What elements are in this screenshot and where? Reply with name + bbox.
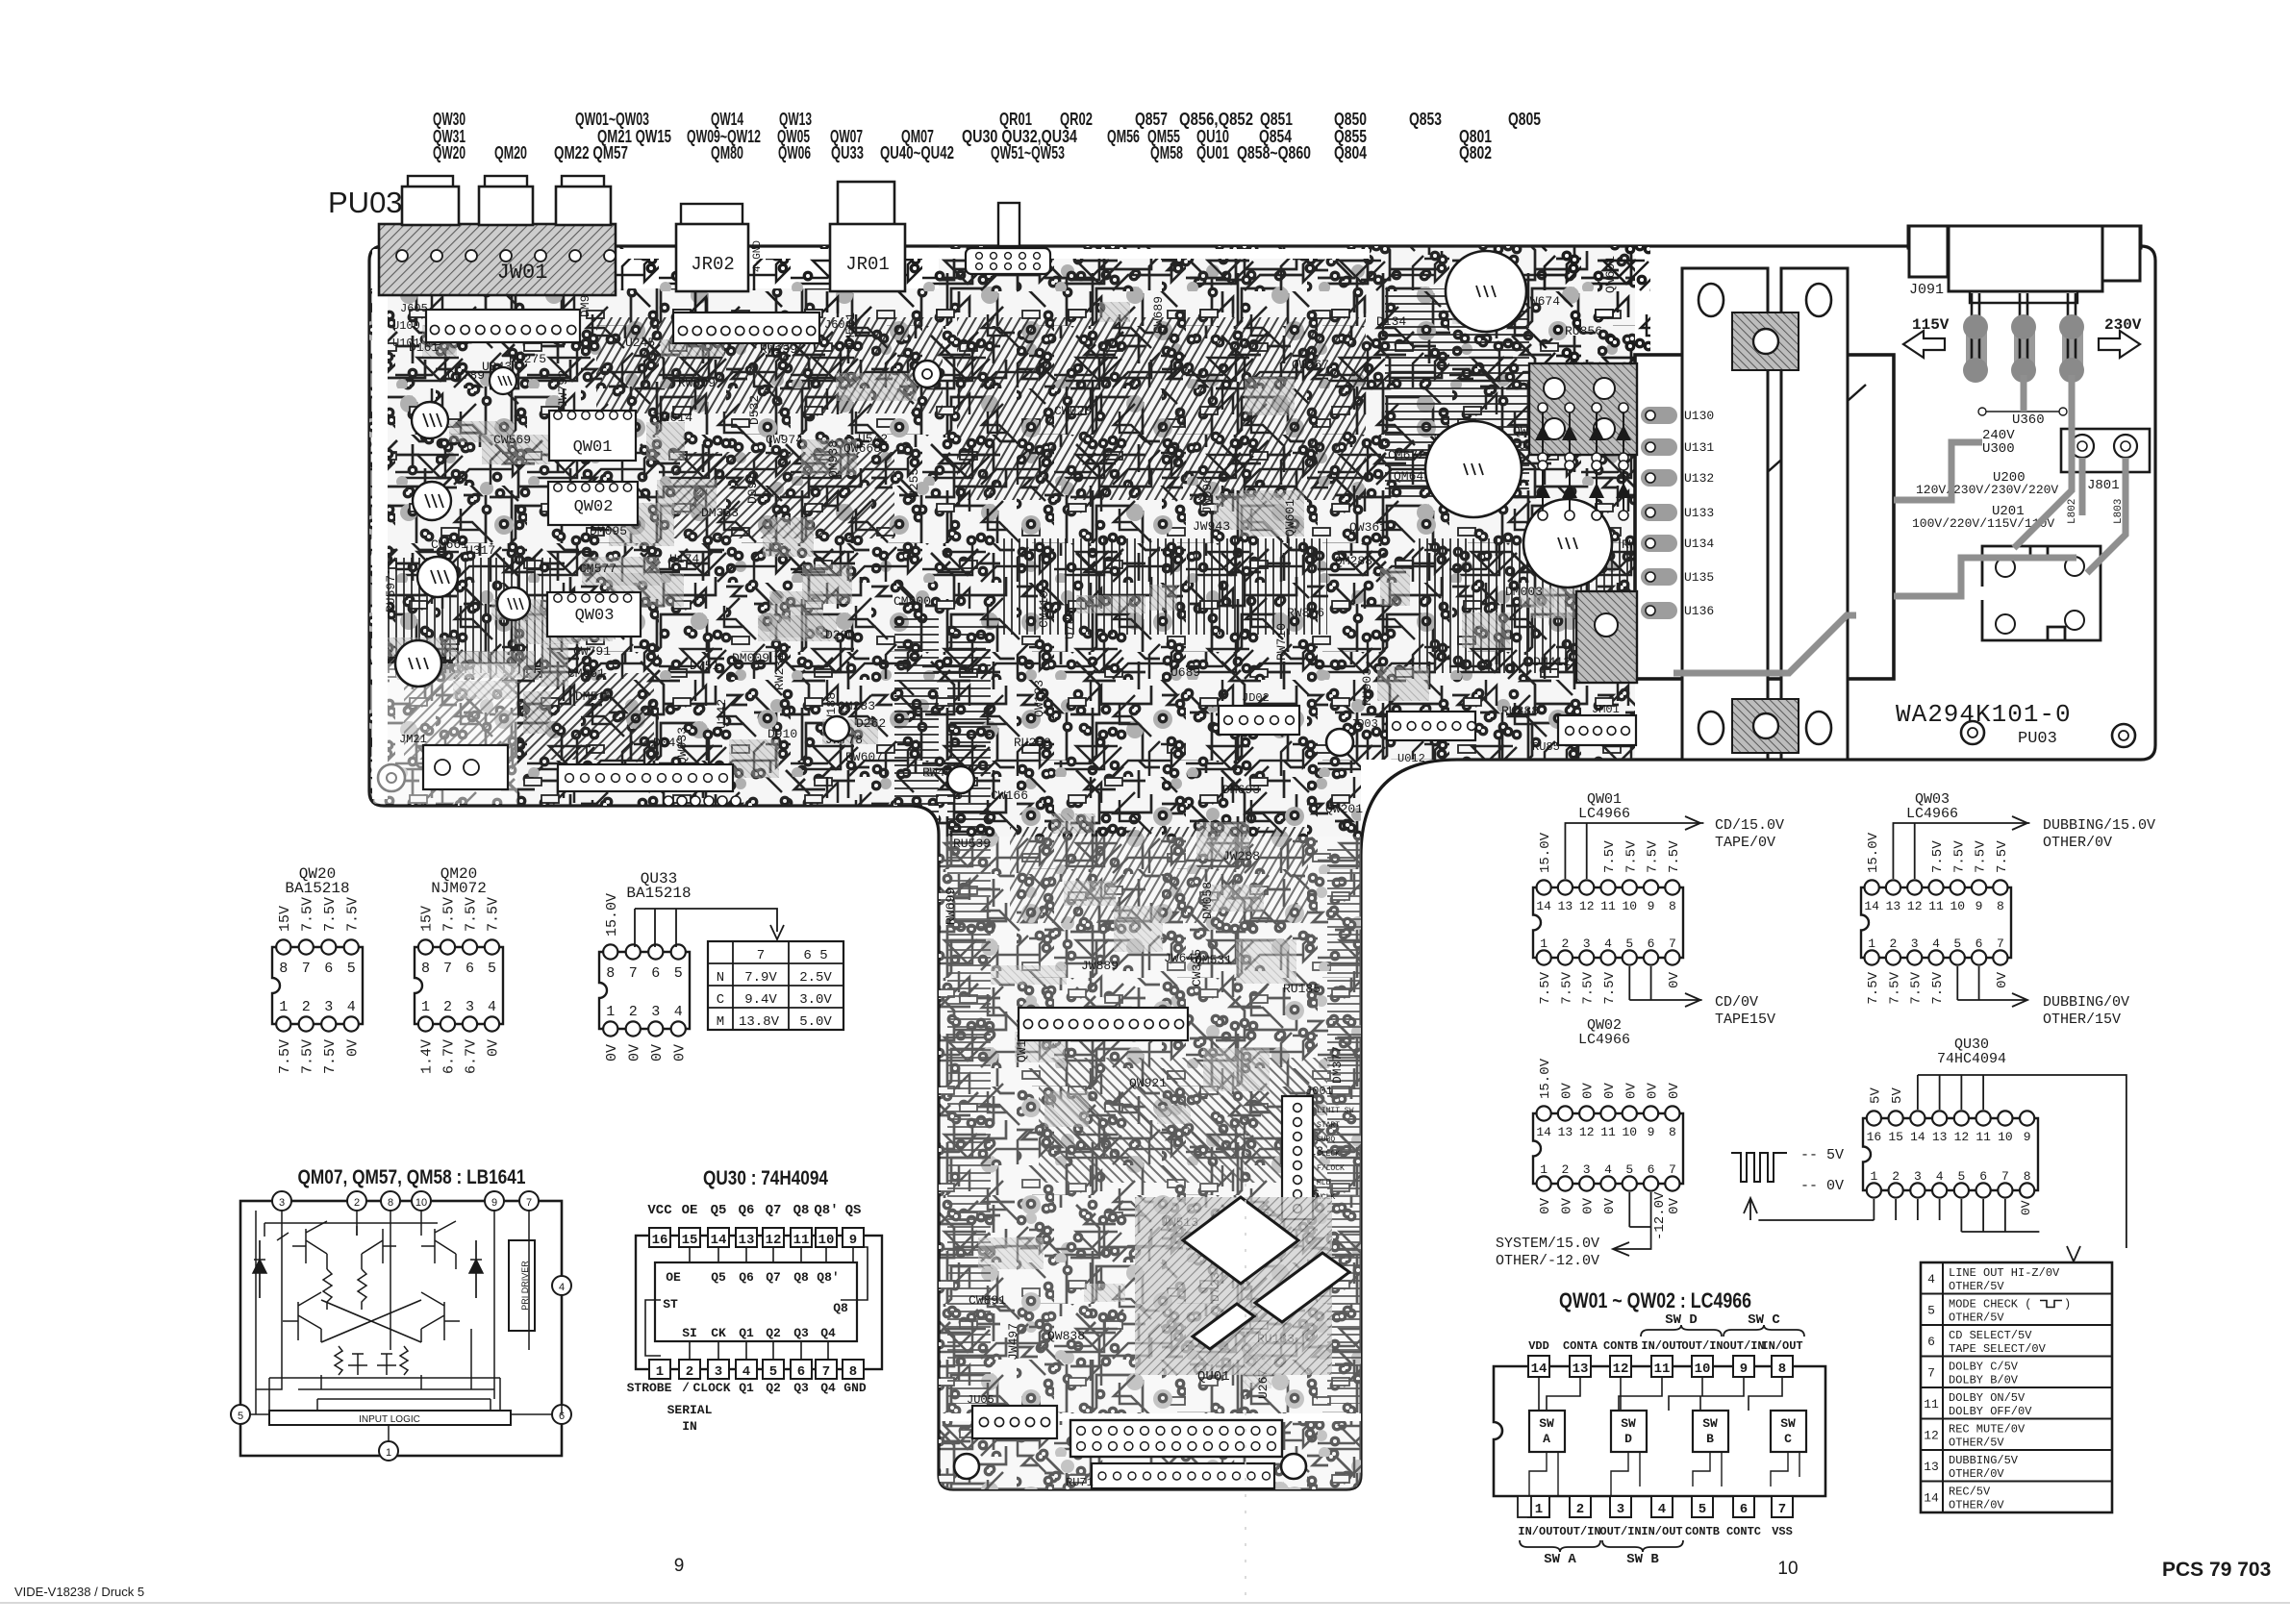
heatsink bracket [1682,268,1768,760]
svg-text:7.5V: 7.5V [1646,840,1661,873]
svg-text:10: 10 [1622,899,1637,913]
svg-text:CW395: CW395 [1190,949,1204,987]
svg-text:SUBQ: SUBQ [1317,1136,1335,1144]
svg-text:Q1: Q1 [739,1381,754,1395]
connector JM21 [423,745,508,789]
pin 16 [649,1228,670,1247]
svg-text:BA15218: BA15218 [285,880,349,897]
svg-text:LIMIT SW: LIMIT SW [1317,1107,1354,1115]
svg-text:1: 1 [606,1004,615,1020]
svg-text:QW838: QW838 [1047,1329,1085,1343]
svg-text:QM283: QM283 [838,699,875,713]
svg-text:0V: 0V [1602,1197,1618,1213]
svg-text:5: 5 [488,961,496,977]
wire QU30 outputs to table [1918,1075,1983,1110]
svg-text:OTHER/5V: OTHER/5V [1949,1437,2004,1450]
svg-text:RU85: RU85 [1532,740,1560,754]
svg-text:7.5V: 7.5V [1930,840,1946,873]
svg-text:11: 11 [1928,899,1944,913]
svg-text:U134: U134 [1684,537,1714,551]
svg-text:CM577: CM577 [579,562,617,576]
svg-text:Q4: Q4 [820,1381,836,1395]
svg-text:9: 9 [491,1197,497,1209]
svg-text:DM009: DM009 [732,651,769,665]
svg-text:0V: 0V [1646,1083,1661,1099]
svg-text:15: 15 [1888,1130,1903,1144]
svg-text:15V: 15V [277,906,293,932]
svg-text:7.5V: 7.5V [322,897,339,932]
svg-text:6 5: 6 5 [803,948,827,963]
svg-text:JD02: JD02 [1242,691,1270,705]
svg-text:14: 14 [1531,1362,1548,1377]
pin 11 [1651,1356,1673,1377]
diode D8xx [1542,408,1544,458]
svg-text:DM058: DM058 [1200,882,1215,919]
wire SYSTEM/15.0V [1614,1192,1651,1249]
svg-text:CM661: CM661 [567,666,605,681]
svg-text:U174: U174 [669,552,699,566]
svg-text:4: 4 [347,999,356,1015]
svg-text:12: 12 [1924,1429,1939,1443]
svg-text:1: 1 [1540,937,1548,951]
svg-text:15.0V: 15.0V [604,893,620,937]
svg-text:3: 3 [1583,1162,1591,1177]
INPUT LOGIC block [269,1411,511,1425]
IC QW03 [547,592,641,637]
screw hole [1281,1454,1306,1479]
svg-text:WA294K101-0: WA294K101-0 [1896,700,2072,729]
scan edge line [0,1602,2290,1604]
svg-text:Q6: Q6 [739,1270,754,1285]
svg-text:JU05: JU05 [967,1393,994,1407]
svg-text:Q8': Q8' [817,1270,839,1285]
pin 5 [1692,1496,1713,1517]
IC QW20 BA15218 pinout [272,947,363,1024]
svg-text:U136: U136 [1684,604,1714,618]
svg-text:RW139: RW139 [760,342,797,357]
switch SW D [1611,1411,1647,1452]
screw hole [914,361,941,387]
svg-text:2: 2 [302,999,311,1015]
IC QU10 [1529,363,1637,455]
connector J604 [673,312,819,343]
screw hole [954,1454,979,1479]
brace SW A [1520,1540,1600,1552]
svg-text:7.5V: 7.5V [1887,971,1902,1004]
table pin functions [1921,1262,2112,1512]
svg-text:QW601: QW601 [1603,256,1618,293]
svg-text:Q6: Q6 [739,1203,755,1218]
diode D8xx [1569,465,1571,515]
connector J605 [426,310,580,342]
corner light patch [373,663,517,804]
svg-text:5: 5 [238,1411,243,1422]
svg-text:2: 2 [1576,1502,1584,1517]
svg-text:3: 3 [279,1197,285,1209]
svg-text:7: 7 [2001,1169,2009,1184]
PRI DRIVER block [509,1240,535,1331]
svg-text:7.5V: 7.5V [299,897,315,932]
svg-text:QM56: QM56 [1107,127,1140,146]
connector J091 [1908,226,2141,248]
svg-text:9: 9 [1648,1125,1655,1139]
pin [2062,317,2083,377]
svg-text:Q2: Q2 [766,1326,781,1340]
svg-text:6.7V: 6.7V [464,1039,480,1074]
svg-text:7.5V: 7.5V [1930,971,1946,1004]
svg-text:CW661: CW661 [431,537,468,552]
svg-text:CW569: CW569 [493,433,531,447]
svg-text:9: 9 [849,1233,857,1248]
svg-text:JM01: JM01 [1592,703,1620,716]
svg-text:RU539: RU539 [953,837,991,851]
svg-text:0V: 0V [671,1044,688,1062]
wire [369,246,1659,1489]
svg-text:13: 13 [1932,1130,1948,1144]
svg-text:RU275: RU275 [509,352,546,366]
svg-text:U012: U012 [1397,752,1425,765]
IC QM20 NJM072 pinout [415,947,503,1024]
svg-text:JR02: JR02 [691,254,735,275]
wire CD/0V [1629,966,1701,1000]
svg-text:Q7: Q7 [766,1270,781,1285]
svg-text:MODE CHECK (: MODE CHECK ( [1949,1298,2031,1312]
svg-text:2: 2 [354,1197,360,1209]
svg-text:9: 9 [1975,899,1983,913]
svg-text:QW51~QW53: QW51~QW53 [991,143,1065,162]
svg-text:5: 5 [347,961,356,977]
diode [475,1240,477,1298]
svg-text:1: 1 [1870,1169,1877,1184]
svg-text:4: 4 [742,1364,750,1380]
svg-text:2.5V: 2.5V [799,970,832,986]
screw hole [947,766,974,793]
svg-text:U360: U360 [2012,412,2045,428]
capacitor C805 [1446,251,1526,332]
diode D8xx [1623,465,1624,515]
svg-text:7.5V: 7.5V [1559,971,1574,1004]
svg-text:7.5V: 7.5V [441,897,458,932]
svg-text:0V: 0V [1581,1083,1597,1099]
pin [2014,317,2035,377]
copper pour [491,599,551,620]
svg-text:U255: U255 [907,468,921,498]
svg-text:OTHER/0V: OTHER/0V [1949,1499,2004,1512]
wire bundle [380,558,553,673]
svg-text:VSS: VSS [1772,1525,1793,1538]
pin 6 [791,1360,812,1379]
svg-text:3: 3 [1617,1502,1624,1517]
svg-text:5V: 5V [1890,1087,1905,1104]
svg-text:VIDE-V18238 / Druck 5: VIDE-V18238 / Druck 5 [14,1585,144,1599]
table QU33 voltages [708,941,843,1030]
svg-text:10: 10 [1695,1362,1711,1377]
IC QW01 [549,411,636,461]
pad U130 [1641,407,1677,424]
svg-text:Q8': Q8' [814,1203,838,1218]
connector JD03 [1387,712,1475,740]
svg-text:D532: D532 [747,395,762,425]
svg-text:Q5: Q5 [711,1270,726,1285]
wire [1894,442,1982,500]
svg-text:U245: U245 [625,336,655,350]
heatsink bracket [1781,268,1848,760]
svg-text:12: 12 [1907,899,1923,913]
svg-text:15.0V: 15.0V [1538,1058,1553,1099]
connector RU71 row [1092,1463,1274,1488]
svg-text:4-GND: 4-GND [752,240,764,272]
svg-text:7: 7 [1669,937,1676,951]
IC QW02 [548,482,638,525]
pad U133 [1641,504,1677,521]
svg-text:IN/OUT: IN/OUT [1518,1525,1559,1538]
pin 2 [1570,1496,1591,1517]
svg-text:12: 12 [1579,1125,1595,1139]
svg-text:U142: U142 [715,699,729,729]
diode D8xx [1542,465,1544,515]
svg-text:3: 3 [1914,1169,1922,1184]
svg-text:SW B: SW B [1626,1552,1659,1567]
connector JM01 [1558,715,1636,745]
heatsink clamp top [1732,312,1799,370]
svg-text:15: 15 [682,1233,698,1248]
svg-text:6: 6 [1648,937,1655,951]
pin 3 [1610,1496,1631,1517]
svg-text:0V: 0V [1667,1197,1682,1213]
svg-text:3: 3 [1583,937,1591,951]
svg-text:QM22 QM57: QM22 QM57 [554,143,628,162]
pin 9 [1733,1356,1754,1377]
svg-text:7.5V: 7.5V [1581,971,1597,1004]
IC QW01 LC4966 pinout [1533,887,1683,958]
svg-text:0V: 0V [1602,1083,1618,1099]
board edge notch pins [664,796,673,806]
svg-text:OE: OE [682,1203,698,1218]
svg-text:7.5V: 7.5V [277,1039,293,1074]
svg-text:7: 7 [629,965,638,982]
svg-text:6: 6 [1648,1162,1655,1177]
svg-text:7.5V: 7.5V [1602,971,1618,1004]
svg-text:5V: 5V [1868,1087,1883,1104]
svg-text:6: 6 [1979,1169,1987,1184]
brace SW D [1641,1325,1722,1337]
svg-text:11: 11 [793,1233,810,1248]
pin 14 [708,1228,729,1247]
svg-text:SW D: SW D [1665,1312,1698,1328]
svg-text:CONTA: CONTA [1563,1339,1598,1353]
pin 14 [1528,1356,1549,1377]
svg-text:8: 8 [279,961,288,977]
svg-text:4: 4 [1604,937,1612,951]
wire QU33 to table [635,909,777,947]
svg-text:2: 2 [1562,1162,1570,1177]
svg-text:12: 12 [1954,1130,1970,1144]
svg-text:JW889: JW889 [1081,959,1119,973]
svg-text:4: 4 [488,999,496,1015]
svg-text:QM288: QM288 [1335,554,1372,568]
svg-text:7.5V: 7.5V [1866,971,1881,1004]
pin 10 [816,1228,837,1247]
pin 6 [1733,1496,1754,1517]
svg-text:6.7V: 6.7V [441,1039,458,1074]
svg-text:11: 11 [1924,1397,1939,1412]
svg-text:DM412: DM412 [1533,655,1571,669]
svg-text:3: 3 [651,1004,660,1020]
screw hole [378,764,405,791]
diode D8xx [1596,408,1598,458]
switch SW A [1529,1411,1565,1452]
svg-text:SW: SW [1621,1416,1636,1431]
svg-text:3: 3 [1911,937,1919,951]
svg-text:U131: U131 [1684,440,1714,455]
pad U135 [1641,568,1677,586]
svg-text:JW497: JW497 [1006,1323,1020,1361]
svg-text:DOLBY ON/5V: DOLBY ON/5V [1949,1391,2026,1405]
svg-text:OTHER/0V: OTHER/0V [2043,835,2112,851]
svg-text:QM20: QM20 [494,143,527,162]
svg-text:3: 3 [466,999,474,1015]
svg-text:LC4966: LC4966 [1906,806,1958,822]
connector SR01 [966,248,1050,274]
pin 3 [708,1360,729,1379]
capacitor C806 [1425,421,1522,517]
svg-text:BA15218: BA15218 [626,885,691,902]
svg-text:RU185: RU185 [1283,982,1321,996]
svg-text:13: 13 [1886,899,1901,913]
svg-text:14: 14 [1536,1125,1551,1139]
capacitor C809 [1523,499,1612,587]
connector jack RCA 1 [408,176,453,187]
svg-text:QW14: QW14 [711,110,743,129]
svg-text:1: 1 [1868,937,1875,951]
svg-text:Q850: Q850 [1334,110,1367,129]
svg-text:): ) [2064,1298,2071,1312]
svg-text:5: 5 [1625,1162,1633,1177]
svg-text:REC MUTE/0V: REC MUTE/0V [1949,1423,2026,1437]
svg-text:U101: U101 [392,337,420,350]
svg-text:2: 2 [443,999,452,1015]
op-amp U_LB1641 internal diagram [240,1201,562,1456]
svg-text:0V: 0V [1559,1083,1574,1099]
svg-text:RU597: RU597 [384,575,398,612]
svg-text:TAPE SELECT/0V: TAPE SELECT/0V [1949,1342,2047,1356]
transistor QW20 can [412,402,448,438]
svg-text:-- 0V: -- 0V [1800,1178,1844,1194]
connector J801 [2061,429,2150,472]
svg-text:QM58: QM58 [1150,143,1183,162]
pad U131 [1641,438,1677,456]
svg-text:CW974: CW974 [766,433,803,447]
wire [256,1211,562,1414]
pin 12 [1610,1356,1631,1377]
svg-text:6: 6 [1927,1335,1935,1349]
svg-text:0V: 0V [1559,1197,1574,1213]
svg-text:OTHER/15V: OTHER/15V [2043,1012,2121,1028]
IC QU33 BA15218 pinout [599,952,690,1029]
svg-text:A: A [1543,1432,1550,1446]
pin [1966,317,1987,377]
svg-text:13: 13 [1573,1362,1589,1377]
svg-text:QM07, QM57, QM58 : LB1641: QM07, QM57, QM58 : LB1641 [298,1166,526,1188]
IC QW02 LC4966 pinout [1533,1113,1683,1184]
svg-text:QM938: QM938 [826,440,841,478]
svg-text:CW791: CW791 [573,644,611,659]
connector jack RCA 2 [485,176,527,187]
svg-text:Q804: Q804 [1334,143,1367,162]
diode [259,1240,261,1298]
svg-text:7.5V: 7.5V [1974,840,1989,873]
svg-text:CM900: CM900 [893,594,931,609]
transistor QW30 can [413,482,451,520]
svg-text:QW30: QW30 [433,110,466,129]
pin 4 [736,1360,757,1379]
diode D8xx [1623,408,1624,458]
svg-text:JD03: JD03 [1350,717,1378,731]
svg-text:QW20: QW20 [433,143,466,162]
svg-text:11: 11 [1600,1125,1616,1139]
svg-text:-- 5V: -- 5V [1800,1147,1844,1163]
svg-text:10: 10 [1998,1130,2013,1144]
svg-text:J605: J605 [400,302,428,315]
svg-text:9: 9 [2024,1130,2031,1144]
svg-text:Q2: Q2 [766,1381,781,1395]
svg-text:SW: SW [1539,1416,1554,1431]
svg-text:Q851: Q851 [1260,110,1293,129]
svg-text:QW668: QW668 [843,441,881,456]
svg-text:Q858~Q860: Q858~Q860 [1237,143,1311,162]
pin 2 [347,1191,366,1211]
svg-text:U780: U780 [1063,610,1077,639]
svg-text:QW361: QW361 [1349,520,1387,535]
svg-text:D910: D910 [768,727,797,741]
svg-text:Q805: Q805 [1508,110,1541,129]
transistor QM20 can [417,557,458,597]
switch SW C [1771,1411,1806,1452]
svg-text:7: 7 [1997,937,2004,951]
svg-text:OE: OE [666,1270,681,1285]
svg-text:1: 1 [1540,1162,1548,1177]
svg-text:14: 14 [711,1233,727,1248]
svg-text:9.4V: 9.4V [744,992,777,1008]
svg-text:SI: SI [682,1326,697,1340]
svg-text:RW809: RW809 [678,376,716,390]
switch SW B [1693,1411,1728,1452]
svg-text:16: 16 [652,1233,668,1248]
svg-text:J801: J801 [2087,478,2120,493]
JW01 pins [396,250,408,262]
svg-text:Q3: Q3 [793,1381,809,1395]
wire DUBBING/0V [1957,966,2027,1000]
svg-text:6: 6 [797,1364,805,1380]
svg-text:C: C [1784,1432,1792,1446]
svg-text:CD/15.0V: CD/15.0V [1715,817,1784,834]
transistor CW20 can [497,587,530,620]
svg-text:Q853: Q853 [1409,110,1442,129]
svg-text:0V: 0V [604,1044,620,1062]
svg-text:QU40~QU42: QU40~QU42 [880,143,954,162]
pin 1 [649,1360,670,1379]
svg-text:1: 1 [279,999,288,1015]
svg-text:QU33: QU33 [831,143,864,162]
svg-text:RU888: RU888 [1501,704,1539,718]
svg-text:QR02: QR02 [1060,110,1093,129]
svg-text:2: 2 [629,1004,638,1020]
svg-text:11: 11 [1600,899,1616,913]
svg-text:DUBBING/5V: DUBBING/5V [1949,1454,2019,1467]
svg-text:QW01: QW01 [573,438,613,457]
IC Q850 block [1576,591,1637,683]
svg-text:7.5V: 7.5V [322,1039,339,1074]
